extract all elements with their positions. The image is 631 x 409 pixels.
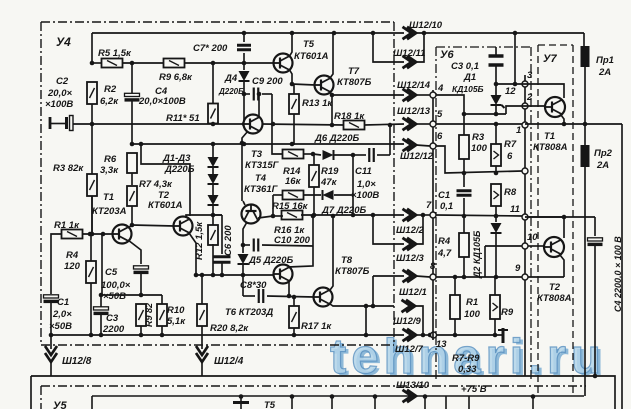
diode D5 bbox=[238, 254, 249, 264]
svg-text:47к: 47к bbox=[320, 177, 338, 188]
junction bbox=[99, 333, 104, 338]
resistor R9 (82) bbox=[136, 304, 146, 326]
resistor R3 (100) bbox=[459, 135, 469, 159]
wire T2 emitter bbox=[189, 233, 196, 275]
svg-text:Ш12/7: Ш12/7 bbox=[395, 344, 424, 355]
wire riser to R15 bbox=[272, 195, 274, 216]
resistor R14 bbox=[283, 150, 304, 159]
wire T2u7 base bbox=[528, 245, 544, 247]
wire bbox=[416, 94, 430, 96]
wire bbox=[464, 113, 506, 115]
junction bbox=[211, 122, 216, 127]
junction bbox=[453, 333, 458, 338]
pin 13 bbox=[431, 332, 437, 338]
svg-text:У5: У5 bbox=[53, 400, 67, 409]
wire bbox=[334, 154, 353, 156]
junction bbox=[290, 394, 295, 399]
wire bbox=[525, 216, 595, 218]
junction bbox=[290, 142, 295, 147]
svg-text:×100В: ×100В bbox=[351, 190, 379, 201]
svg-text:Д220Б: Д220Б bbox=[218, 87, 244, 96]
junction bbox=[241, 273, 246, 278]
svg-text:КТ315Г: КТ315Г bbox=[245, 160, 280, 171]
svg-text:Т1: Т1 bbox=[544, 131, 555, 142]
svg-text:0,33: 0,33 bbox=[458, 364, 477, 375]
junction bbox=[290, 31, 295, 36]
svg-text:Д1: Д1 bbox=[463, 72, 476, 83]
junction bbox=[494, 171, 499, 176]
wire bbox=[377, 154, 390, 156]
capacitor C1 (2.0) bbox=[44, 295, 59, 302]
svg-text:С5: С5 bbox=[105, 267, 118, 278]
wire bbox=[495, 66, 497, 95]
capacitor C9 bbox=[254, 88, 259, 101]
junction bbox=[240, 141, 245, 146]
junction bbox=[422, 31, 427, 36]
junction bbox=[330, 93, 335, 98]
capacitor C7 bbox=[237, 45, 251, 50]
junction bbox=[330, 123, 335, 128]
resistor R12 bbox=[208, 225, 218, 245]
wire bbox=[243, 63, 245, 70]
wire base row bbox=[91, 123, 244, 125]
svg-text:Ш12/8: Ш12/8 bbox=[62, 356, 92, 367]
wire net 12 bbox=[514, 33, 516, 84]
svg-text:КТ601А: КТ601А bbox=[148, 200, 183, 211]
svg-text:R8: R8 bbox=[504, 187, 517, 198]
wire to R14 bbox=[272, 94, 283, 154]
junction bbox=[453, 275, 458, 280]
junction bbox=[211, 273, 216, 278]
wire bbox=[495, 233, 497, 277]
wire bbox=[495, 183, 497, 185]
junction bbox=[242, 92, 247, 97]
wire bbox=[273, 215, 283, 217]
junction bbox=[220, 273, 225, 278]
svg-text:Ш13/10: Ш13/10 bbox=[396, 380, 430, 391]
wire T6 emitter bbox=[288, 281, 290, 296]
connector Sh12/3 bbox=[403, 238, 417, 250]
svg-text:3: 3 bbox=[527, 70, 533, 81]
svg-text:Ш12/13: Ш12/13 bbox=[397, 106, 431, 117]
pin 11 bbox=[522, 214, 528, 220]
junction bbox=[271, 122, 276, 127]
svg-text:2200: 2200 bbox=[102, 324, 125, 335]
junction bbox=[242, 142, 247, 147]
junction bbox=[194, 273, 199, 278]
junction bbox=[428, 333, 433, 338]
junction bbox=[130, 61, 135, 66]
svg-text:Т7: Т7 bbox=[348, 66, 360, 77]
wire top rail to fuse Pr1 bbox=[416, 32, 584, 34]
wire bbox=[496, 83, 528, 85]
wire Sh12/14 row bbox=[332, 94, 404, 96]
svg-text:Ш12/10: Ш12/10 bbox=[409, 20, 443, 31]
wire bbox=[313, 154, 315, 165]
resistor R20 bbox=[197, 304, 207, 326]
wire Sh12/1 row bbox=[373, 275, 404, 277]
junction bbox=[373, 394, 378, 399]
junction bbox=[139, 333, 144, 338]
svg-text:R1: R1 bbox=[466, 297, 478, 308]
wire bbox=[140, 326, 142, 335]
svg-text:100: 100 bbox=[471, 143, 488, 154]
svg-text:6,2к: 6,2к bbox=[100, 96, 119, 107]
wire bbox=[262, 124, 344, 125]
wire bbox=[293, 328, 295, 335]
transistor T8 KT807B bbox=[314, 288, 333, 307]
wire bbox=[201, 275, 203, 304]
wire bbox=[212, 224, 214, 226]
wire bbox=[90, 241, 92, 261]
svg-text:11: 11 bbox=[510, 204, 520, 215]
resistor R9 (U6) bbox=[490, 295, 500, 319]
wire bbox=[212, 167, 214, 174]
junction bbox=[130, 223, 135, 228]
junction bbox=[364, 333, 369, 338]
wire bbox=[313, 187, 315, 215]
wire T7 emitter bbox=[330, 92, 332, 95]
wire bbox=[92, 62, 102, 64]
wire bbox=[331, 95, 333, 125]
resistor R9 bbox=[164, 59, 185, 68]
junction bbox=[493, 333, 498, 338]
svg-text:КТ807Б: КТ807Б bbox=[337, 77, 372, 88]
wire bbox=[212, 204, 214, 225]
wire T6 base row bbox=[196, 274, 274, 276]
wire to pin 2 bbox=[506, 106, 528, 114]
junction bbox=[90, 232, 95, 237]
resistor R17 bbox=[289, 306, 299, 328]
wire T1u7 collector bbox=[528, 84, 564, 98]
wire bbox=[201, 362, 203, 376]
svg-text:Т5: Т5 bbox=[264, 400, 276, 409]
junction bbox=[423, 394, 428, 399]
wire bbox=[373, 33, 404, 62]
junction bbox=[211, 61, 216, 66]
pin 1 bbox=[522, 122, 528, 128]
diode D7 bbox=[323, 190, 334, 200]
resistor R15 bbox=[283, 191, 304, 200]
wire bbox=[90, 234, 92, 241]
wire bbox=[389, 125, 391, 155]
wire T2 collector bbox=[186, 215, 222, 218]
svg-text:КД105Б: КД105Б bbox=[452, 84, 484, 94]
wire bbox=[161, 326, 163, 335]
wire bbox=[201, 326, 203, 335]
svg-text:С7* 200: С7* 200 bbox=[193, 43, 228, 54]
connector Sh12/12 bbox=[403, 139, 417, 151]
connector Sh12/7 bbox=[403, 329, 417, 341]
wire T3 emitter bbox=[242, 131, 248, 143]
capacitor C6 bbox=[214, 257, 231, 263]
svg-text:5: 5 bbox=[437, 109, 443, 120]
wire T1 collector bbox=[128, 225, 132, 228]
svg-text:×50В: ×50В bbox=[49, 321, 72, 332]
wire bbox=[463, 216, 465, 233]
svg-text:У7: У7 bbox=[543, 53, 557, 65]
junction bbox=[351, 213, 356, 218]
wire T1 base bbox=[82, 233, 113, 235]
wire bbox=[334, 194, 353, 196]
connector Sh12/2 bbox=[403, 209, 417, 221]
capacitor C5 bbox=[134, 266, 149, 273]
svg-text:Т8: Т8 bbox=[341, 255, 353, 266]
svg-text:Ш12/14: Ш12/14 bbox=[397, 80, 431, 91]
junction bbox=[371, 213, 376, 218]
wire T2u7 collector bbox=[528, 217, 564, 238]
svg-text:R13 1к: R13 1к bbox=[302, 98, 333, 109]
wire bbox=[495, 166, 497, 173]
junction bbox=[292, 295, 297, 300]
wire bbox=[621, 124, 623, 409]
svg-text:R6: R6 bbox=[104, 154, 117, 165]
wire bbox=[50, 344, 52, 349]
junction bbox=[311, 152, 316, 157]
wire bbox=[242, 240, 244, 253]
junction bbox=[139, 142, 144, 147]
pin 9 bbox=[522, 274, 528, 280]
svg-text:Т2: Т2 bbox=[549, 282, 561, 293]
wire bbox=[201, 335, 203, 349]
diode D2 bbox=[208, 174, 219, 184]
svg-text:Д1-Д3: Д1-Д3 bbox=[162, 153, 191, 164]
junction bbox=[562, 122, 567, 127]
svg-text:С6 200: С6 200 bbox=[223, 225, 234, 256]
svg-text:R4: R4 bbox=[66, 250, 79, 261]
resistor R4 (120) bbox=[86, 261, 96, 283]
junction bbox=[494, 122, 499, 127]
wire bbox=[416, 145, 430, 146]
wire T4 base bbox=[241, 143, 243, 201]
wire bbox=[243, 33, 245, 42]
svg-text:120: 120 bbox=[64, 261, 81, 272]
capacitor C8 bbox=[259, 289, 264, 303]
wire T1u7 base bbox=[528, 105, 545, 107]
wire bbox=[100, 315, 102, 335]
svg-text:2А: 2А bbox=[596, 160, 609, 171]
svg-text:R7-R9: R7-R9 bbox=[452, 353, 480, 364]
wire from pin 6 bbox=[436, 146, 522, 173]
junction bbox=[513, 31, 518, 36]
wire bbox=[313, 154, 321, 155]
svg-text:Пр2: Пр2 bbox=[594, 148, 613, 159]
wire jog bbox=[484, 246, 486, 277]
resistor R5 bbox=[102, 59, 123, 68]
svg-text:КТ361Г: КТ361Г bbox=[244, 184, 279, 195]
junction bbox=[290, 82, 295, 87]
resistor R1 (100) bbox=[450, 295, 460, 319]
svg-text:100: 100 bbox=[464, 309, 481, 320]
svg-text:R11* 51: R11* 51 bbox=[166, 113, 200, 124]
wire bbox=[131, 63, 133, 93]
svg-text:1: 1 bbox=[516, 125, 521, 136]
junction bbox=[494, 275, 499, 280]
wire from pin 4 bbox=[436, 95, 464, 114]
junction bbox=[388, 123, 393, 128]
resistor R18 bbox=[344, 121, 365, 130]
junction bbox=[311, 214, 316, 219]
transistor T1 KT808A bbox=[545, 97, 565, 117]
junction bbox=[89, 333, 94, 338]
junction bbox=[101, 232, 106, 237]
svg-text:КТ203А: КТ203А bbox=[92, 206, 127, 217]
wire bbox=[416, 276, 430, 277]
svg-text:Д220Б: Д220Б bbox=[164, 164, 195, 175]
junction bbox=[242, 31, 247, 36]
resistor R7 (6) bbox=[491, 144, 501, 166]
svg-text:R2: R2 bbox=[104, 84, 117, 95]
svg-text:Ш12/4: Ш12/4 bbox=[214, 356, 244, 367]
pin 2 bbox=[522, 103, 528, 109]
wire bbox=[31, 376, 615, 409]
fuse Pr2 bbox=[581, 145, 590, 167]
wire bbox=[494, 277, 496, 295]
wire T2 collector bbox=[141, 144, 190, 216]
junction bbox=[494, 82, 499, 87]
svg-text:6: 6 bbox=[437, 131, 443, 142]
wire bbox=[243, 201, 245, 205]
wire bbox=[243, 295, 255, 297]
junction bbox=[99, 293, 104, 298]
svg-text:R7: R7 bbox=[504, 139, 517, 150]
svg-text:КТ601А: КТ601А bbox=[294, 51, 329, 62]
junction bbox=[271, 214, 276, 219]
svg-text:Д4: Д4 bbox=[224, 73, 238, 84]
wire pin7 row bbox=[436, 215, 522, 216]
transistor T3 KT315G bbox=[244, 115, 263, 134]
component stubs in U5 bbox=[241, 396, 533, 409]
ground stub bbox=[498, 328, 508, 343]
svg-text:У4: У4 bbox=[56, 35, 71, 49]
svg-text:1,0×: 1,0× bbox=[357, 179, 376, 190]
svg-text:3,3к: 3,3к bbox=[100, 165, 119, 176]
svg-text:С3 0,1: С3 0,1 bbox=[451, 61, 479, 72]
block U4 border (dash-dot box) bbox=[41, 22, 394, 345]
junction bbox=[242, 61, 247, 66]
svg-text:12: 12 bbox=[505, 86, 516, 97]
junction bbox=[241, 243, 246, 248]
wire bbox=[416, 334, 430, 336]
wire bbox=[262, 93, 272, 95]
connector Sh13/10 bbox=[403, 390, 417, 402]
wire bbox=[463, 114, 465, 135]
wire bbox=[304, 194, 321, 196]
svg-text:×100В: ×100В bbox=[45, 99, 73, 110]
wire bbox=[244, 93, 250, 95]
svg-text:20,0×: 20,0× bbox=[47, 88, 72, 99]
wire T8 collector bbox=[330, 218, 333, 290]
wire emitter bus bbox=[525, 123, 622, 125]
wire bbox=[140, 256, 142, 264]
wire bbox=[273, 194, 283, 196]
wire T6 collector bbox=[288, 218, 313, 267]
svg-text:С10 200: С10 200 bbox=[274, 235, 311, 246]
wire bbox=[415, 306, 423, 335]
fuse Pr1 bbox=[581, 46, 590, 67]
junction bbox=[371, 31, 376, 36]
svg-text:13: 13 bbox=[436, 339, 447, 350]
wire T4 emitter bbox=[243, 222, 247, 240]
wire to T7 base bbox=[292, 84, 315, 85]
connector Sh12/13 bbox=[403, 118, 417, 130]
wire U6 left pin bus bbox=[432, 90, 434, 340]
junction bbox=[513, 82, 518, 87]
wire bbox=[454, 277, 456, 295]
svg-text:7: 7 bbox=[426, 200, 432, 211]
transistor T1 KT203A bbox=[113, 225, 132, 244]
svg-text:R9 82: R9 82 bbox=[144, 303, 154, 327]
wire bbox=[267, 296, 314, 297]
wire bbox=[352, 155, 354, 215]
transistor T7 KT807B bbox=[315, 76, 334, 95]
wire bbox=[293, 114, 295, 145]
wire bbox=[495, 206, 497, 216]
junction bbox=[531, 394, 536, 399]
wire riser to Sh12/1 bbox=[372, 276, 374, 306]
svg-text:Ш12/3: Ш12/3 bbox=[396, 253, 425, 264]
junction bbox=[90, 61, 95, 66]
pin 5 bbox=[430, 121, 436, 127]
resistor R10 bbox=[157, 304, 167, 326]
transistor T4 KT361G bbox=[242, 205, 261, 224]
svg-text:5,1к: 5,1к bbox=[167, 316, 186, 327]
svg-text:Ш12/2: Ш12/2 bbox=[396, 225, 425, 236]
junction bbox=[351, 153, 356, 158]
wire bbox=[494, 319, 496, 335]
svg-text:R9 6,8к: R9 6,8к bbox=[159, 72, 193, 83]
svg-text:R20 8,2к: R20 8,2к bbox=[210, 323, 249, 334]
capacitor C4 (2200) bbox=[588, 238, 603, 245]
junction bbox=[494, 214, 499, 219]
wire bbox=[131, 206, 133, 225]
junction bbox=[257, 92, 262, 97]
wire bbox=[51, 234, 62, 290]
junction bbox=[562, 215, 567, 220]
wire bottom rail of U4 bbox=[51, 334, 404, 336]
wire bbox=[594, 217, 596, 236]
svg-text:4: 4 bbox=[437, 83, 444, 94]
wire bbox=[101, 234, 103, 295]
connector Sh12/14 bbox=[403, 89, 417, 101]
wire D7 row bbox=[301, 214, 404, 216]
wire bbox=[50, 290, 52, 294]
svg-text:С1: С1 bbox=[438, 190, 450, 201]
svg-text:R10: R10 bbox=[167, 305, 185, 316]
wire bbox=[140, 274, 142, 295]
diode D1 KD105B bbox=[491, 95, 505, 108]
wire T5 collector bbox=[289, 33, 292, 57]
svg-text:Ш12/9: Ш12/9 bbox=[393, 316, 422, 327]
wire bbox=[91, 196, 93, 234]
wire bbox=[495, 124, 497, 144]
wire bbox=[212, 144, 214, 157]
wire bbox=[583, 33, 585, 46]
connector Sh12/11 bbox=[403, 56, 417, 68]
resistor R11 bbox=[208, 104, 218, 124]
junction bbox=[211, 142, 216, 147]
wire T4 collector bbox=[258, 216, 273, 218]
junction bbox=[312, 213, 317, 218]
pin bbox=[522, 168, 528, 174]
wire T7 collector bbox=[330, 33, 333, 78]
junction bbox=[88, 232, 93, 237]
wire bbox=[242, 264, 244, 275]
wire to T5 base bbox=[184, 62, 274, 64]
block U5 inner box bbox=[92, 396, 584, 409]
junction bbox=[462, 171, 467, 176]
pin 4 bbox=[430, 92, 436, 98]
